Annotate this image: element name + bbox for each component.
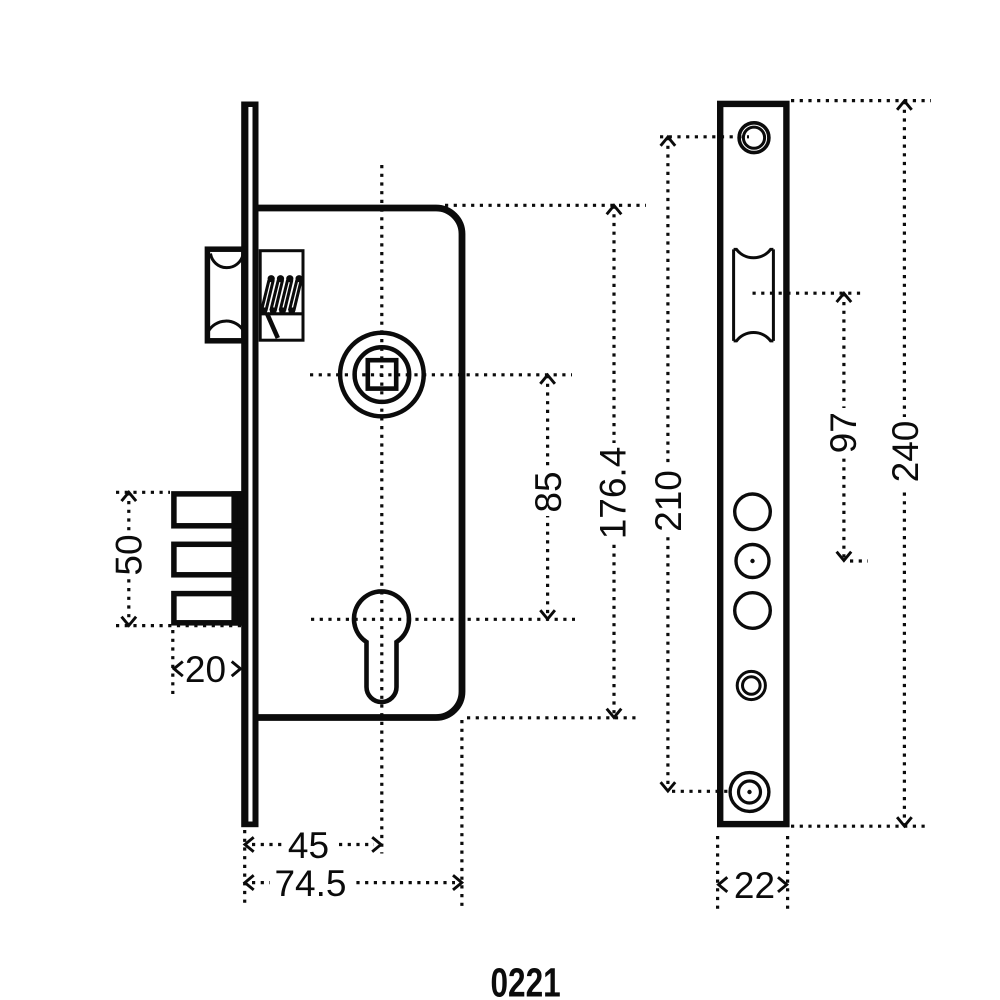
dimension 45 xyxy=(245,825,381,866)
dimension 240 line xyxy=(885,101,926,826)
latch bolt (side view) xyxy=(207,249,244,341)
cylinder hole circle 1 xyxy=(735,494,771,530)
small screw hole (double circle) xyxy=(737,671,765,699)
deadbolt stack: connecting bar xyxy=(231,491,243,626)
deadbolt-left extension below xyxy=(171,630,174,694)
bottom screw hole (double circle with dot) xyxy=(730,773,769,812)
top screw hole outer xyxy=(739,123,769,153)
dimension 97 line xyxy=(823,293,864,560)
spring coil xyxy=(260,275,303,338)
body top extension line xyxy=(445,204,646,207)
cylinder hole circle 3 xyxy=(735,593,771,629)
left view: faceplate side (outer bar) xyxy=(241,102,258,828)
spring base line xyxy=(260,312,303,315)
keyhole horizontal centerline xyxy=(311,618,575,621)
latch cutout (bobbin) xyxy=(734,249,774,341)
spindle hub inner circle xyxy=(355,347,410,402)
210 top extension xyxy=(660,135,749,138)
svg-text:0221: 0221 xyxy=(490,960,560,1000)
top screw hole inner xyxy=(743,127,764,148)
svg-text:50: 50 xyxy=(109,534,150,575)
vertical centerline of lock xyxy=(380,165,383,854)
deadbolt pin 2 xyxy=(174,544,241,575)
deadbolt bottom extension xyxy=(116,624,243,627)
dimension 50 line xyxy=(109,492,150,625)
plate-left extension (bottom) xyxy=(243,830,246,905)
22 left extension xyxy=(716,836,719,909)
97 top extension xyxy=(753,292,865,295)
svg-text:97: 97 xyxy=(823,412,864,453)
cylinder hole circle 2 (with center dot) xyxy=(736,545,769,578)
svg-text:45: 45 xyxy=(288,825,329,866)
dimension 74.5 xyxy=(245,863,462,904)
dimension 210 line xyxy=(648,137,689,791)
latch bottom arc xyxy=(209,321,244,331)
240 bottom extension xyxy=(791,825,930,828)
97 bottom extension (short) xyxy=(850,559,868,562)
svg-text:240: 240 xyxy=(885,421,926,483)
body bottom extension line xyxy=(467,716,640,719)
svg-text:176.4: 176.4 xyxy=(593,447,634,540)
euro cylinder keyhole xyxy=(354,591,409,702)
spring leg xyxy=(267,313,278,338)
spindle horizontal centerline xyxy=(310,373,572,376)
left view: lock body outline xyxy=(259,208,463,718)
svg-text:20: 20 xyxy=(185,649,226,690)
240 top extension xyxy=(791,99,931,102)
svg-text:210: 210 xyxy=(648,470,689,532)
spindle hub outer circle xyxy=(340,333,424,417)
deadbolt top extension xyxy=(116,491,170,494)
right view: faceplate front xyxy=(720,104,786,824)
deadbolt pin 1 xyxy=(174,494,241,526)
dimension 176.4 line xyxy=(593,206,634,718)
spring box xyxy=(260,251,303,341)
spindle square hole xyxy=(368,360,396,388)
22 right extension xyxy=(786,836,789,909)
svg-text:22: 22 xyxy=(734,865,775,906)
dimension 20 xyxy=(174,649,241,690)
body-right extension (bottom) xyxy=(460,720,463,906)
dimension 22 xyxy=(719,865,787,906)
210 bottom extension xyxy=(672,790,731,793)
deadbolt pin 3 xyxy=(174,594,241,623)
svg-text:85: 85 xyxy=(528,471,569,512)
dimension 85 line xyxy=(528,375,569,619)
latch top arc xyxy=(211,254,244,268)
svg-text:74.5: 74.5 xyxy=(274,863,346,904)
